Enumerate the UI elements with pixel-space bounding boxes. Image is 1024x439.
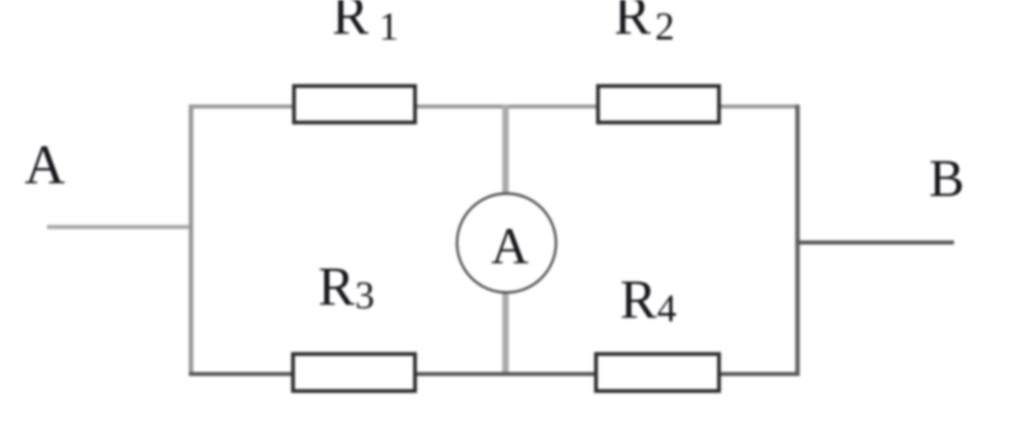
svg-text:R: R <box>318 256 355 317</box>
svg-text:B: B <box>929 150 964 208</box>
svg-text:2: 2 <box>655 5 675 48</box>
svg-text:3: 3 <box>355 274 375 317</box>
svg-text:4: 4 <box>657 287 677 330</box>
svg-text:A: A <box>25 135 66 197</box>
svg-text:A: A <box>491 219 529 276</box>
svg-text:R: R <box>332 0 369 46</box>
svg-text:R: R <box>620 269 657 330</box>
svg-text:R: R <box>614 0 651 46</box>
svg-text:1: 1 <box>379 5 399 48</box>
